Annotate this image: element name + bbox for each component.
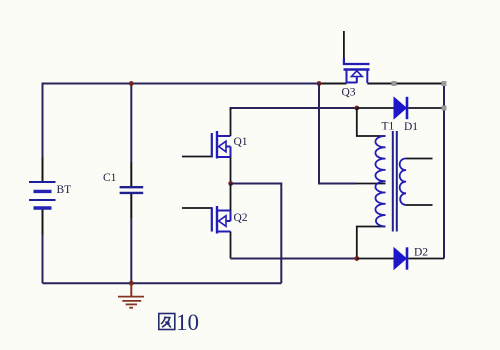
wire: D2 cathode pin to right corner <box>408 258 444 260</box>
svg-text:Q3: Q3 <box>342 87 356 99</box>
transformer T1 core <box>392 131 394 232</box>
svg-text:D2: D2 <box>414 247 428 259</box>
bulk-drain tie <box>230 211 232 222</box>
wire: ground bus <box>43 282 282 284</box>
bulk stem <box>356 77 358 84</box>
wire: D2 anode pin <box>357 258 394 260</box>
wire: D1 anode pin <box>357 107 394 109</box>
wire: top bus pin segment to Q3 source <box>319 83 347 85</box>
capacitor C1 <box>120 187 144 193</box>
wire: secondary bottom stub <box>406 204 433 206</box>
node: bus/C1 junction <box>129 81 134 86</box>
bulk-source tie <box>347 82 357 84</box>
bulk arrow (up) <box>351 71 362 77</box>
node: rail/primary-top junction <box>354 106 359 111</box>
ground <box>118 283 144 307</box>
wire: D1 cathode pin <box>408 107 444 109</box>
wire: C1 branch upper <box>130 84 132 163</box>
wire: secondary top stub <box>406 158 433 160</box>
wire: top bus battery+ y=83.5 <box>43 84 320 85</box>
handle at top-right corner <box>442 81 447 86</box>
node: bus/center-tap junction <box>317 81 322 86</box>
caption 图10 <box>159 310 199 335</box>
handle at Q3 drain bus <box>392 81 397 86</box>
gate pin <box>182 207 212 209</box>
svg-text:T1: T1 <box>382 121 395 133</box>
transformer T1 primary winding <box>375 136 385 227</box>
drain stub <box>217 135 231 137</box>
wire: center tap pin <box>356 183 386 185</box>
svg-text:Q2: Q2 <box>234 212 248 224</box>
svg-text:10: 10 <box>176 310 199 335</box>
gate bar <box>211 207 213 231</box>
bulk arrow <box>219 216 226 227</box>
bulk-source tie <box>230 147 232 158</box>
wire: battery branch lower <box>42 209 44 236</box>
source pin <box>230 157 232 184</box>
transistor Q1 <box>182 108 231 184</box>
handle at D1 rail right <box>442 106 447 111</box>
svg-text:D1: D1 <box>404 121 418 133</box>
transistor Q3 <box>344 31 370 83</box>
wire: top bus Q3 drain to right corner <box>367 83 444 85</box>
gate lead bend <box>344 58 370 64</box>
diode D2 <box>394 247 407 269</box>
gate pin (vertical, from top) <box>343 31 345 58</box>
wire: Q1 drain rail y=108 <box>231 108 357 110</box>
node: ground junction <box>129 281 134 286</box>
drain pin <box>230 108 232 136</box>
channel bar <box>216 206 218 234</box>
svg-text:Q1: Q1 <box>234 136 248 148</box>
wire: midpoint to ground link <box>231 184 282 284</box>
wire: Q2 source to D2 line <box>231 258 357 260</box>
drain stub (right) <box>366 70 368 84</box>
node: Q1/Q2 midpoint <box>228 181 233 186</box>
wire: right output vertical <box>443 84 445 259</box>
wire: center tap link <box>319 84 356 184</box>
source stub <box>217 156 231 158</box>
battery BT <box>29 182 56 208</box>
source pin <box>230 232 232 259</box>
gate pin <box>182 156 212 158</box>
transformer T1 secondary winding <box>400 158 406 205</box>
wire: C1 branch lower <box>130 193 132 218</box>
source stub (bottom) <box>217 231 231 233</box>
svg-text:BT: BT <box>57 184 72 196</box>
transistor Q2 <box>182 184 231 259</box>
drain stub (top) <box>217 210 231 212</box>
gate bar <box>211 133 213 157</box>
wire: primary top L <box>357 108 386 136</box>
top pin <box>230 184 232 211</box>
channel bar <box>216 131 218 159</box>
channel bar <box>344 68 370 70</box>
wire: battery branch upper <box>42 84 44 158</box>
wire: primary bottom L <box>357 227 386 259</box>
svg-text:C1: C1 <box>103 172 117 184</box>
diode D1 <box>394 97 407 119</box>
bulk arrow <box>219 141 226 152</box>
node: D2 line / primary bottom junction <box>354 256 359 261</box>
hanzi 图 drawn as strokes <box>159 314 175 330</box>
source stub (left) <box>346 70 348 84</box>
